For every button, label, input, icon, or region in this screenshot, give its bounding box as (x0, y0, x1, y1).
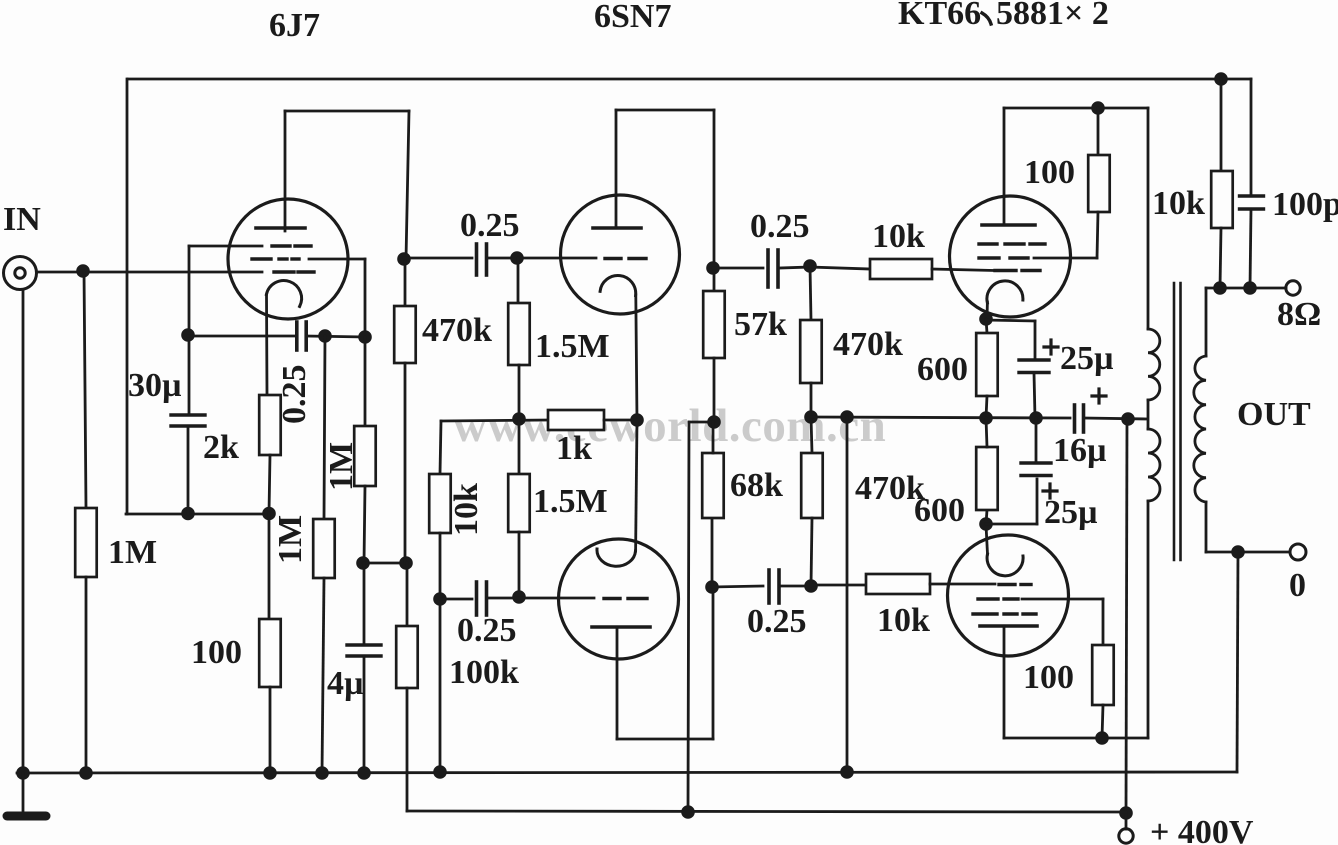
coil OPT primary upper (1148, 329, 1160, 400)
svg-text:0.25: 0.25 (750, 208, 810, 245)
svg-text:8Ω: 8Ω (1277, 296, 1321, 333)
capacitor 0.25 C-screen (297, 322, 306, 350)
wire input jack to 6J7 grid (37, 271, 262, 274)
resistor 2k (259, 395, 281, 455)
wire top feedback bus (128, 78, 1251, 81)
svg-text:100p: 100p (1272, 186, 1338, 223)
wire OPT secondary bottom lead (1205, 502, 1208, 552)
resistor 1M R1 (75, 508, 97, 577)
label tube types KT66, 5881x2 (898, 0, 1109, 32)
tube V5 screen grid (973, 612, 1036, 615)
capacitor 30u (171, 415, 205, 426)
tube 6SN7 V2 envelope (561, 195, 680, 314)
wire V1 plate out (404, 257, 472, 260)
tube V4 screen grid (979, 242, 1045, 245)
wire 100p top lead (1250, 79, 1253, 196)
tube V4 plate (982, 108, 1035, 225)
node output junction 100p (1243, 281, 1257, 295)
svg-text:100: 100 (1023, 659, 1074, 696)
node KT66low grid junction (804, 579, 818, 593)
wire 470k R7 bottom lead (810, 383, 813, 417)
wire V3 plate out (712, 586, 763, 587)
node tail junction (512, 412, 526, 426)
wire 57k bottom lead (713, 358, 716, 422)
wire V4 screen lead (1034, 257, 1097, 260)
label 1M R1 (108, 534, 157, 571)
wire bias ground stub (846, 417, 849, 772)
wire 100 R9 to screen (1097, 212, 1098, 258)
tube V2 cathode (600, 276, 636, 296)
node bias line left (804, 410, 818, 424)
label 470k R4 (422, 312, 492, 349)
label 0.25 C3 (750, 208, 810, 245)
label 2k (203, 429, 239, 466)
decorative watermark (453, 400, 886, 452)
label 470k R7 (833, 326, 903, 363)
label +400V (1150, 814, 1254, 845)
tube V4 cathode (987, 281, 1023, 303)
wire 1.5M R5 top lead (517, 258, 520, 303)
node V1 plate junction (397, 252, 411, 266)
wire V2 plate drop (713, 110, 716, 268)
label OUT (1237, 396, 1311, 433)
wire 600 R10 bottom lead (986, 396, 987, 418)
node B+ junction 57k/68k (707, 415, 721, 429)
wire 100 R9 top lead (1097, 108, 1100, 155)
wire 10k tail top lead (440, 421, 441, 474)
svg-text:0.25: 0.25 (276, 365, 313, 425)
svg-text:100: 100 (191, 634, 242, 671)
wire 100 bottom lead (269, 687, 272, 773)
tube V3 grid (604, 597, 647, 600)
svg-text:10k: 10k (877, 602, 930, 639)
node V2 plate junction (706, 261, 720, 275)
node gnd 4u (357, 766, 371, 780)
svg-text:KT66: KT66 (898, 0, 981, 32)
svg-text:5881× 2: 5881× 2 (996, 0, 1109, 32)
input jack J1 (4, 257, 37, 290)
terminal 8 ohm (1286, 281, 1300, 295)
node B+ 16u junction (1121, 412, 1135, 426)
label 600 R10 (917, 351, 968, 388)
svg-text:0: 0 (1289, 567, 1306, 604)
wire 1.5M R6 top lead (518, 419, 521, 474)
wire 100 R11 bottom lead (1102, 705, 1103, 738)
resistor 470k R7 (800, 320, 822, 383)
label 100 R-cath (191, 634, 242, 671)
wire 600 R10 top lead (986, 319, 987, 333)
wire 30u bottom lead (187, 426, 190, 514)
label 0.25 C2 (457, 612, 517, 649)
tube V5 control grid (999, 583, 1031, 586)
wire 10k G2 to V5 grid (930, 583, 995, 586)
svg-text:10k: 10k (1152, 185, 1205, 222)
tube V5 cathode (987, 554, 1023, 576)
label 1M R3 rotated (323, 442, 360, 491)
node cathodes junction (630, 413, 644, 427)
node gnd 1M R1 (79, 766, 93, 780)
wire +400V stem (1125, 813, 1128, 829)
wire grid to 10k G2 (811, 584, 866, 587)
input terminal IN label (3, 201, 41, 238)
resistor 600 R10 (976, 333, 998, 396)
wire V3 plate loop (617, 587, 713, 739)
svg-text:IN: IN (3, 201, 41, 238)
wire V1 screen drop (188, 246, 191, 415)
wire ground riser (1237, 552, 1238, 772)
wire OPT primary tap (1147, 400, 1150, 429)
wire 470k R7 top lead (810, 266, 811, 320)
wire 470k R4 top lead (404, 259, 407, 306)
tube V4 beam grid (979, 256, 1028, 259)
wire secondary to 0 node (1206, 551, 1290, 554)
tube V2 grid (605, 257, 646, 260)
wire 10k tail bottom lead (439, 533, 442, 773)
tube KT66 V4 envelope (950, 196, 1071, 317)
capacitor 0.25 C2 (477, 582, 487, 615)
ground symbol (7, 773, 46, 816)
node input/1M junction (76, 264, 90, 278)
tube V1 plate (256, 111, 305, 231)
tube 6SN7 V3 envelope (559, 539, 679, 659)
wire 1M R3 bottom lead (364, 486, 365, 563)
node V4 plate/100 junction (1091, 101, 1105, 115)
wire 4u top lead (363, 563, 366, 645)
label 4u (327, 665, 364, 702)
node top bus 10k junction (1214, 72, 1228, 86)
node gnd bias stub (840, 765, 854, 779)
label 1M R2 rotated (272, 515, 309, 564)
node 0 terminal junction (1231, 545, 1245, 559)
wire screen cap row (188, 336, 365, 337)
wire V1 screen lead (189, 245, 262, 248)
node output junction 10k (1213, 281, 1227, 295)
wire cap2 row (440, 598, 472, 601)
svg-text:470k: 470k (422, 312, 492, 349)
wire 470k R4 to node A (404, 363, 407, 563)
node gnd jack (16, 766, 30, 780)
wire 10k R13 top lead (1220, 79, 1223, 171)
node V5 cathode junction (979, 517, 993, 531)
wire V4 cathode lead (986, 302, 989, 319)
svg-text:1k: 1k (556, 430, 592, 467)
tube V5 plate (980, 626, 1037, 738)
wire feedback left drop (126, 79, 129, 514)
svg-text:1.5M: 1.5M (533, 483, 608, 520)
terminal +400V (1119, 829, 1133, 843)
wire C2 to V3 grid (487, 597, 594, 600)
label 25u C6 (1044, 494, 1098, 531)
capacitor 25u C6 (1021, 463, 1051, 476)
svg-text:OUT: OUT (1237, 396, 1311, 433)
label 100p (1272, 186, 1338, 223)
wire 25u C6 link (986, 479, 1037, 524)
tube V2 plate (593, 110, 641, 228)
capacitor 25u C5 (1019, 360, 1049, 373)
resistor 1M R2 (313, 519, 335, 578)
capacitor 16u C7 (1075, 405, 1084, 432)
wire V2 plate out (713, 267, 763, 270)
svg-text:57k: 57k (734, 306, 787, 343)
svg-text:0.25: 0.25 (457, 612, 517, 649)
tube V4 control grid (995, 269, 1040, 272)
wire 1k to cathodes (604, 419, 637, 422)
tube 6J7 V1 envelope (228, 199, 348, 319)
node A right junction (399, 556, 413, 570)
wire 1M R3 top lead (364, 337, 367, 426)
svg-text:16µ: 16µ (1053, 432, 1107, 469)
label 25u C5 (1060, 340, 1114, 377)
node V2 grid junction (510, 251, 524, 265)
label 0.25 C1 (460, 207, 520, 244)
resistor 100 R-cath (259, 619, 281, 687)
node +400V B+ drop junction (681, 805, 695, 819)
wire 10k G1 to V4 grid (932, 269, 993, 271)
wire 600 R12 bottom lead (986, 510, 987, 524)
wire 100k top lead (406, 563, 409, 626)
node A left junction (356, 556, 370, 570)
tube V1 cathode (266, 281, 301, 307)
node bias ground stub junction (840, 410, 854, 424)
wire OPT primary bottom lead (1147, 501, 1150, 738)
tube V1 screen grid (272, 244, 311, 247)
svg-text:0.25: 0.25 (747, 603, 807, 640)
wire 600 R12 top lead (986, 418, 987, 447)
node V3 plate junction (705, 580, 719, 594)
wire 1.5M R6 bottom lead (518, 532, 521, 597)
wire V1 suppressor lead (309, 259, 365, 337)
svg-text:2k: 2k (203, 429, 239, 466)
svg-text:25µ: 25µ (1060, 340, 1114, 377)
node 30u bottom junction (181, 507, 195, 521)
label 100 R9 (1024, 154, 1075, 191)
svg-text:4µ: 4µ (327, 665, 364, 702)
wire 25u C5 bottom lead (1034, 373, 1035, 418)
svg-text:68k: 68k (730, 467, 783, 504)
resistor 57k (703, 291, 725, 358)
wire V5 screen lead (1022, 598, 1103, 601)
svg-text:100: 100 (1024, 154, 1075, 191)
resistor 10k tail (429, 474, 451, 533)
svg-text:10k: 10k (872, 218, 925, 255)
tube V1 control grid (274, 270, 314, 273)
node gnd 1M R2 (315, 766, 329, 780)
resistor 600 R12 (976, 447, 998, 510)
wire node A link (363, 562, 406, 565)
wire B+ corner link (689, 421, 714, 424)
wire C1 to V2 grid (487, 257, 596, 260)
node gnd 10k tail (433, 765, 447, 779)
coil OPT secondary (1194, 356, 1206, 502)
capacitor 0.25 C3 (768, 250, 778, 287)
svg-text:+ 400V: + 400V (1150, 814, 1254, 845)
resistor 470k R8 (801, 453, 823, 518)
core OPT (1174, 283, 1181, 560)
svg-text:1.5M: 1.5M (535, 328, 610, 365)
wire 1M R2 top lead (324, 336, 325, 519)
capacitor 0.25 C4 (769, 570, 779, 603)
node 600 junction (979, 411, 993, 425)
label 100k (449, 654, 519, 691)
wire 1M R2 bottom lead (322, 578, 324, 773)
svg-text:10k: 10k (448, 483, 485, 536)
tube KT66 V5 envelope (948, 535, 1069, 656)
label 10k tail rotated (448, 483, 485, 536)
wire feedback to cathode node (126, 513, 269, 516)
label 1k (556, 430, 592, 467)
wire 1.5M R5 bottom lead (518, 365, 521, 419)
terminal 0 (1290, 544, 1306, 560)
label 16u C7 (1053, 432, 1107, 469)
svg-text:6SN7: 6SN7 (594, 0, 671, 35)
label + C7 (1092, 389, 1106, 403)
node V4 cathode junction (979, 312, 993, 326)
node gnd 100 R-cath (263, 766, 277, 780)
node 25u junction (1029, 411, 1043, 425)
label 0.25 C4 (747, 603, 807, 640)
label 8 ohm (1277, 296, 1321, 333)
label 1.5M R6 (533, 483, 608, 520)
node V1 screen/cap junction (181, 328, 195, 342)
wire 68k bottom lead (711, 518, 714, 587)
resistor 100 R11 (1092, 645, 1114, 705)
wire 1M R1 top lead (84, 271, 86, 508)
wire 16u to tap (1084, 418, 1147, 419)
wire 25u C5 link (986, 320, 1035, 360)
svg-text:6J7: 6J7 (269, 7, 320, 44)
label tube type 6SN7 (594, 0, 671, 35)
svg-text:30µ: 30µ (128, 367, 182, 404)
node 2k/100 cathode junction (262, 507, 276, 521)
wire C3 to grid node (779, 267, 811, 268)
label 600 R12 (914, 492, 965, 529)
wire jack ground drop (22, 290, 25, 773)
svg-text:600: 600 (914, 492, 965, 529)
resistor 1k (548, 410, 604, 430)
capacitor 100p (1240, 196, 1264, 209)
wire C4 to grid node (779, 585, 811, 588)
wire V1 plate link (285, 110, 409, 113)
resistor 10k G1 (870, 259, 932, 279)
resistor 68k (702, 453, 724, 518)
wire 1M R1 bottom lead (85, 577, 88, 773)
wire OPT secondary top lead (1205, 288, 1208, 356)
label 57k (734, 306, 787, 343)
wire 100 R11 top lead (1102, 599, 1105, 645)
node cap2 ground junction (433, 592, 447, 606)
wire output row 8ohm (1206, 287, 1286, 290)
wire 100k to +400V rail (406, 688, 409, 811)
resistor 1.5M R6 (508, 474, 530, 532)
label 100 R11 (1023, 659, 1074, 696)
wire 10k R13 bottom lead (1220, 228, 1221, 288)
resistor 1M R3 (354, 426, 376, 486)
wire V1 cathode lead (265, 295, 268, 395)
wire 25u C6 top lead (1035, 418, 1038, 463)
label 470k R8 (855, 470, 925, 507)
capacitor 0.25 C1 (477, 244, 487, 275)
svg-text:470k: 470k (833, 326, 903, 363)
resistor 100k (396, 626, 418, 688)
label 0 (1289, 567, 1306, 604)
wire tail corner (441, 420, 548, 421)
label 10k R13 (1152, 185, 1205, 222)
resistor 1.5M R5 (508, 303, 530, 365)
wire 57k top lead (713, 268, 716, 291)
svg-text:25µ: 25µ (1044, 494, 1098, 531)
label + C6 (1043, 484, 1057, 498)
wire +400V rail (407, 811, 1126, 812)
tube V3 plate (592, 627, 650, 739)
resistor 10k G2 (866, 574, 930, 594)
node R11/plate junction (1095, 731, 1109, 745)
svg-text:1M: 1M (272, 515, 309, 564)
tube V1 suppressor grid (252, 257, 299, 260)
node grid-leak row right (358, 330, 372, 344)
wire 2k to junction (269, 455, 270, 619)
wire B+ down to 400V (1126, 419, 1127, 813)
wire grid to 10k G1 (810, 267, 870, 269)
label 1.5M R5 (535, 328, 610, 365)
wire 470k R8 bottom lead (811, 518, 812, 586)
wire V2 cathode lead (636, 295, 637, 421)
label + C5 (1044, 340, 1058, 354)
wire B+ drop to rail (688, 422, 689, 812)
wire 100p bottom lead (1250, 209, 1251, 288)
resistor 470k R4 (394, 306, 416, 363)
wire ground bus (17, 772, 1237, 773)
wire 68k top lead (712, 422, 715, 453)
tube V3 cathode (597, 549, 636, 566)
svg-text:100k: 100k (449, 654, 519, 691)
label 10k G1 (872, 218, 925, 255)
svg-text:0.25: 0.25 (460, 207, 520, 244)
label 68k (730, 467, 783, 504)
node grid-leak row left (318, 329, 332, 343)
capacitor 4u (347, 645, 381, 656)
label 30u (128, 367, 182, 404)
wire OPT primary top lead (1147, 108, 1150, 329)
label 0.25 C-screen rotated (276, 365, 313, 425)
node KT66up grid junction (803, 259, 817, 273)
wire V2 plate link (616, 109, 714, 112)
wire 470k R8 top lead (811, 417, 812, 453)
coil OPT primary lower (1148, 429, 1160, 501)
wire V5 plate row (1004, 737, 1148, 740)
wire V3 cathode lead (636, 420, 637, 551)
svg-text:1M: 1M (323, 442, 360, 491)
node +400V rail junction (1119, 806, 1133, 820)
wire 4u bottom lead (363, 656, 366, 773)
wire V1 plate drop (406, 111, 409, 259)
resistor 10k R13 (1211, 171, 1233, 228)
wire V4 plate link (1004, 107, 1148, 110)
label 10k G2 (877, 602, 930, 639)
svg-text:600: 600 (917, 351, 968, 388)
label tube type 6J7 (269, 7, 320, 44)
wire V5 cathode lead (986, 525, 988, 554)
resistor 100 R9 (1088, 155, 1110, 212)
wire bias line (811, 417, 1070, 418)
node V3 grid junction (512, 590, 526, 604)
svg-text:1M: 1M (108, 534, 157, 571)
tube V5 beam grid (978, 597, 1018, 600)
